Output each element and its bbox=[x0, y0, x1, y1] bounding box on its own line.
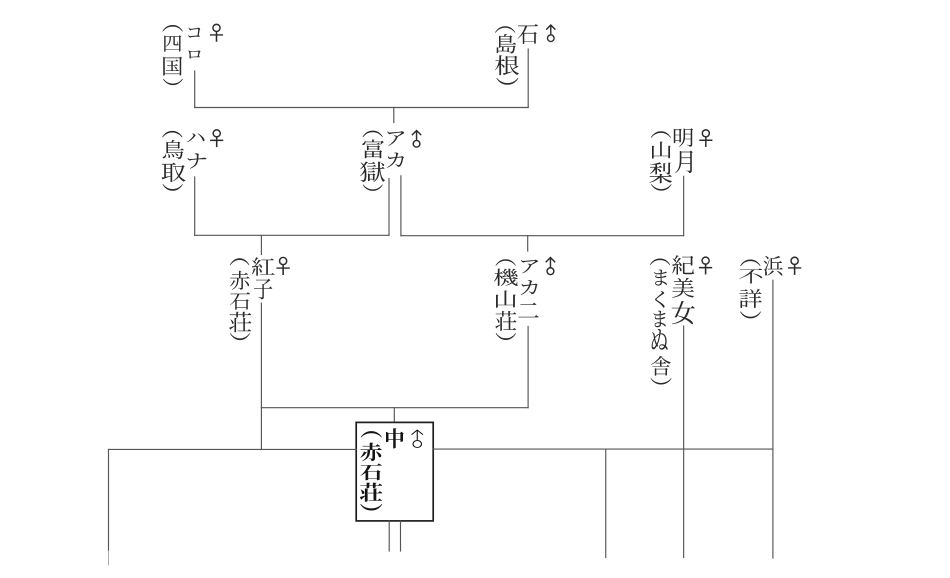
wire アカ二 descender bbox=[527, 326, 529, 407]
wire 中 offspring double line right bbox=[400, 521, 402, 551]
wire drop to アカ二 bbox=[527, 236, 529, 251]
node コロ kennel label (四国) bbox=[162, 25, 183, 85]
node コロ female symbol bbox=[210, 24, 223, 42]
wire mating row far-left vertical bbox=[108, 449, 110, 565]
box around 中(赤石荘) bbox=[356, 422, 433, 521]
wire mating row left horizontal bbox=[109, 448, 357, 450]
wire 中 offspring double line left bbox=[388, 521, 390, 551]
node 紀美女 female symbol bbox=[699, 257, 712, 275]
node 浜 kennel label (不詳) bbox=[739, 260, 762, 319]
node ハナ female symbol bbox=[210, 129, 223, 147]
node dam 明月(山梨) : name 明月 bbox=[674, 128, 693, 173]
node 中 kennel label (赤石荘) (bold) bbox=[360, 431, 383, 510]
wire 紅子 descender bbox=[260, 303, 262, 408]
node アカ二 kennel label (機山荘) bbox=[494, 259, 518, 340]
node dam 浜(不詳) : name 浜 bbox=[763, 256, 782, 276]
wire union コロ×石 bbox=[195, 107, 529, 109]
node アカ kennel label (富獄) bbox=[360, 131, 385, 191]
wire mating row right horizontal bbox=[433, 448, 773, 450]
wire union 紅子×アカ二 bbox=[261, 407, 528, 409]
wire 石 descender bbox=[527, 49, 529, 108]
wire union ハナ×アカ bbox=[195, 234, 389, 236]
node sire アカ二(機山荘) : name アカ二 bbox=[518, 260, 538, 318]
wire コロ descender bbox=[194, 71, 196, 108]
node sire アカ(富獄) : name アカ bbox=[387, 131, 404, 168]
node 中 male symbol (bold) bbox=[411, 429, 423, 448]
wire union アカ×明月 bbox=[401, 235, 684, 237]
node 紅子 kennel label (赤石荘) bbox=[229, 258, 251, 340]
wire drop to 紅子 bbox=[260, 235, 262, 254]
node dam 紅子(赤石荘) : name 紅子 bbox=[252, 257, 275, 299]
node ハナ kennel label (鳥取) bbox=[162, 131, 186, 191]
node アカ male symbol bbox=[412, 130, 422, 148]
node dam コロ(四国) : name コロ bbox=[188, 28, 201, 59]
node 石 male symbol bbox=[546, 24, 555, 42]
wire drop to アカ bbox=[393, 108, 395, 123]
node 中(赤石荘) : name 中 (bold) bbox=[386, 428, 404, 448]
wire 浜 long descender bbox=[772, 280, 774, 558]
wire アカ descender left bbox=[388, 179, 390, 236]
wire 明月 descender bbox=[683, 176, 685, 235]
node 紀美女 kennel label (まくまぬ舎) bbox=[650, 259, 672, 385]
node sire 石(島根) : name 石 bbox=[518, 24, 539, 44]
node 浜 female symbol bbox=[788, 257, 801, 275]
node アカ二 male symbol bbox=[546, 257, 556, 275]
wire 紅子 line to mating row bbox=[260, 408, 262, 450]
node dam ハナ(鳥取) : name ハナ bbox=[187, 133, 206, 168]
wire drop to 中 box bbox=[393, 408, 395, 423]
wire 紀美女 long descender bbox=[683, 326, 685, 557]
node 明月 female symbol bbox=[700, 129, 713, 146]
node 紅子 female symbol bbox=[277, 257, 290, 275]
wire アカ descender right bbox=[400, 176, 402, 236]
node 明月 kennel label (山梨) bbox=[650, 131, 673, 190]
wire mate descender x=605 bbox=[605, 449, 607, 557]
node 石 kennel label (島根) bbox=[495, 26, 519, 84]
node dam 紀美女(まくまぬ舎) : name 紀美女 bbox=[672, 255, 695, 324]
wire ハナ descender bbox=[194, 177, 196, 235]
